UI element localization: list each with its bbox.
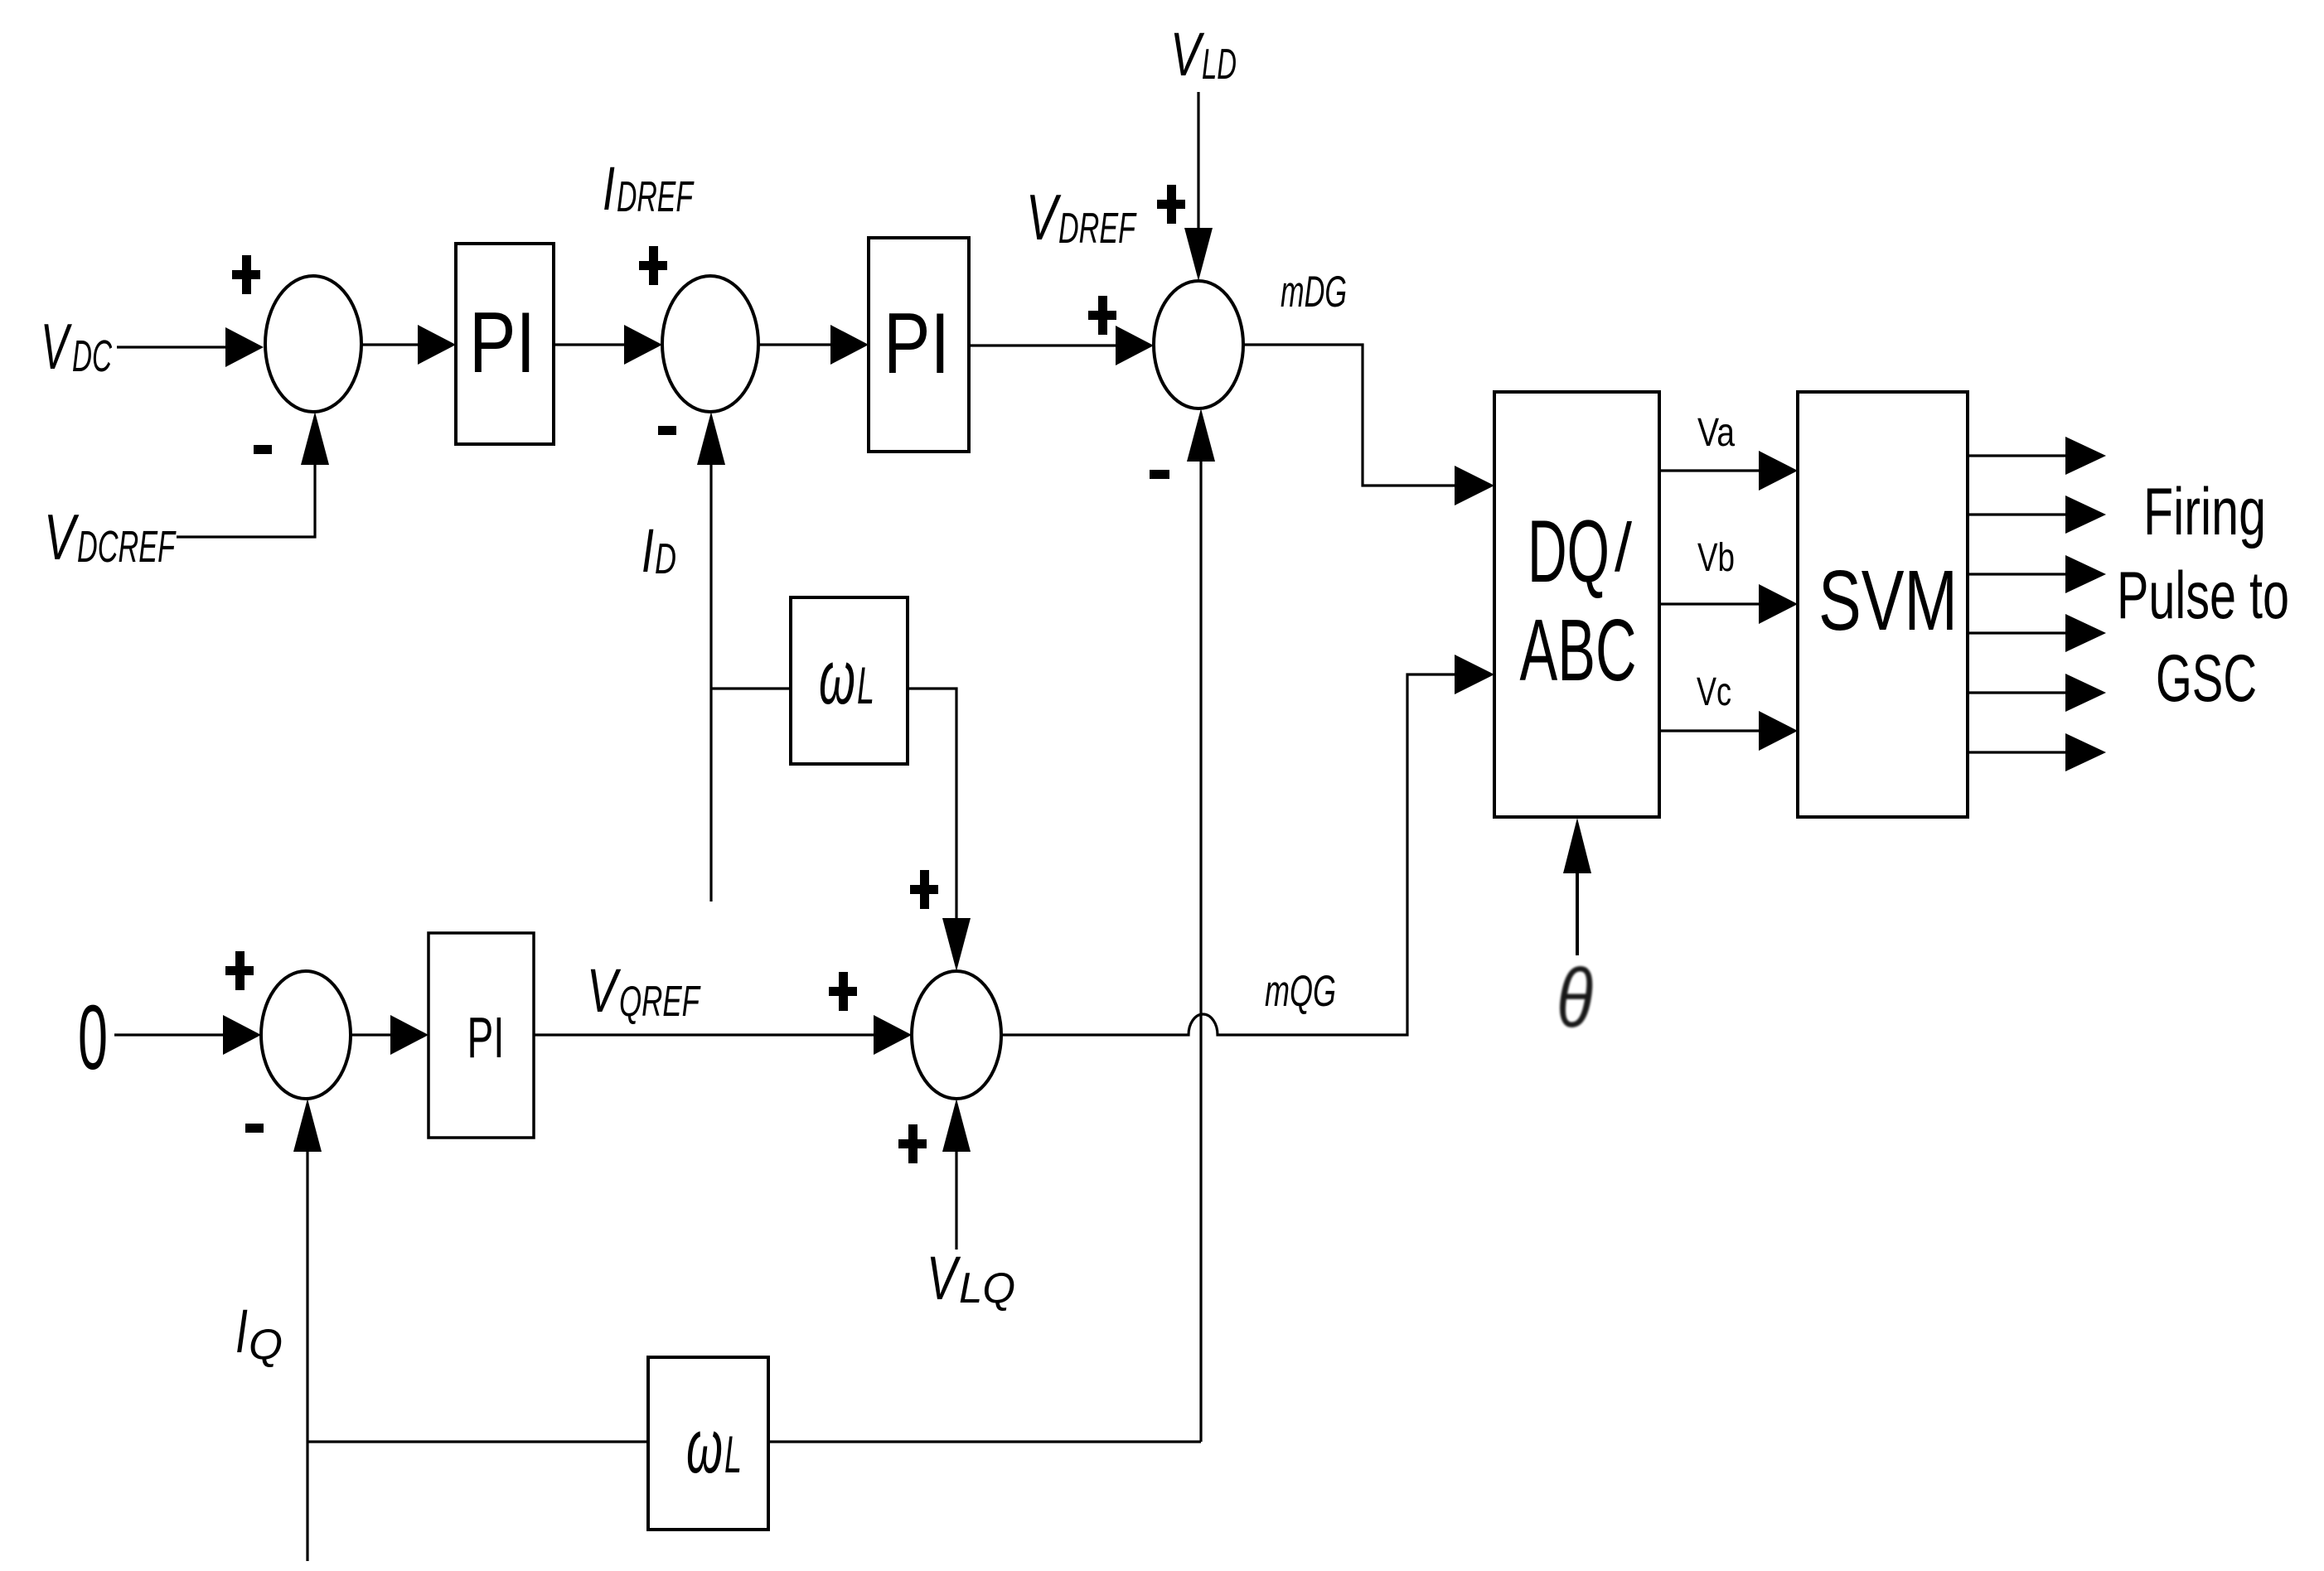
SVM output arrow 3: [1968, 555, 2106, 593]
arrowhead theta into DQ/ABC bottom: [1563, 818, 1591, 873]
wire S1 to PI1: [361, 343, 419, 346]
node ID junction to wL1: [711, 687, 791, 689]
wire Vb to SVM: [1659, 602, 1759, 605]
svg-text:D: D: [655, 535, 676, 583]
plus sign at S4 input: [225, 951, 254, 990]
block SVM: [1798, 392, 1968, 817]
SVM output arrow 5: [1968, 674, 2106, 712]
wire mQG from S5 with hop to DQ/ABC lower input: [1001, 674, 1455, 1035]
svg-text:Vb: Vb: [1697, 536, 1735, 580]
arrowhead into PI3: [390, 1015, 428, 1055]
arrowhead into PI1: [418, 325, 456, 365]
plus sign at S3 left input: [1088, 296, 1116, 335]
block wL2: [648, 1357, 768, 1530]
arrowhead up into S5 bottom: [942, 1099, 971, 1152]
arrowhead up into S1 bottom: [301, 412, 329, 465]
svg-text:DREF: DREF: [1058, 205, 1137, 253]
arrowhead into S2: [624, 325, 662, 365]
minus sign at S4 lower input: [245, 1124, 264, 1133]
block PI2: [869, 238, 969, 452]
svg-text:mDG: mDG: [1281, 268, 1347, 317]
plus sign at S5 left input: [829, 972, 857, 1011]
minus sign at S2 lower input: [658, 426, 676, 435]
plus sign at S5 bottom input: [898, 1124, 927, 1163]
svg-text:DQ: DQ: [1528, 501, 1610, 601]
label wL1: [819, 636, 874, 720]
arrowhead into S4: [223, 1015, 261, 1055]
arrowhead into PI2: [830, 325, 869, 365]
summing junction S3: [1154, 281, 1243, 408]
wire PI1 to summing junction S2: [554, 343, 624, 346]
arrowhead into DQ/ABC top input: [1455, 466, 1494, 505]
node VDREF label: [1026, 181, 1137, 254]
wire IQ up into S4 bottom: [306, 1152, 308, 1561]
svg-text:DCREF: DCREF: [77, 522, 177, 572]
arrowhead into S5: [874, 1015, 912, 1055]
wire theta up into DQ/ABC bottom: [1576, 873, 1579, 955]
wire PI2 to summing junction S3: [969, 344, 1116, 346]
summing junction S1: [265, 276, 361, 412]
arrowhead into S1: [225, 327, 264, 367]
svg-text:DC: DC: [72, 331, 113, 381]
block PI3: [428, 933, 534, 1138]
wire wL1 output down to S5 top: [908, 689, 956, 918]
SVM output arrow 2: [1968, 495, 2106, 534]
svg-text:I: I: [235, 1297, 248, 1366]
arrowhead down into S5 top: [942, 918, 971, 971]
wire IQ feedback junction to wL2: [307, 1440, 648, 1443]
svg-text:QREF: QREF: [619, 978, 701, 1026]
wire Va to SVM: [1659, 469, 1759, 471]
block DQ/ABC: [1494, 392, 1659, 817]
svg-text:GSC: GSC: [2156, 641, 2257, 716]
svg-text:/: /: [1615, 509, 1633, 586]
svg-text:0: 0: [78, 987, 108, 1089]
SVM output arrow 1: [1968, 437, 2106, 475]
svg-text:V: V: [44, 500, 80, 573]
node ID label: [642, 516, 676, 585]
summing junction S4: [261, 971, 351, 1099]
wire PI3 to summing junction S5: [534, 1033, 874, 1036]
svg-text:V: V: [587, 956, 622, 1025]
node VDCREF label: [44, 500, 177, 573]
svg-text:PI: PI: [467, 1005, 505, 1070]
node VDC label: [41, 310, 113, 383]
svg-text:LQ: LQ: [959, 1264, 1015, 1312]
svg-text:Firing: Firing: [2143, 475, 2266, 549]
label Firing Pulse to GSC: [2117, 475, 2289, 716]
svg-text:mQG: mQG: [1265, 967, 1336, 1016]
plus sign at S1 input: [232, 255, 260, 294]
node VLD label: [1170, 20, 1237, 89]
svg-text:I: I: [603, 154, 615, 223]
svg-text:PI: PI: [469, 295, 535, 391]
node IDREF label: [603, 154, 695, 223]
svg-text:Pulse to: Pulse to: [2117, 558, 2289, 633]
wire minus feedback up into S3 bottom: [1199, 462, 1202, 1442]
svg-text:SVM: SVM: [1818, 553, 1958, 648]
svg-text:Va: Va: [1697, 411, 1735, 455]
arrowhead Vb into SVM: [1759, 584, 1798, 624]
arrowhead down into S3 top: [1184, 228, 1213, 281]
node IQ label: [235, 1297, 283, 1369]
wire VDC to summing junction S1: [117, 346, 225, 348]
minus sign at S3 lower input: [1150, 470, 1169, 479]
summing junction S2: [662, 276, 758, 412]
wire VDCREF to S1 bottom: [177, 465, 315, 537]
summing junction S5: [912, 971, 1001, 1099]
svg-text:V: V: [1026, 181, 1062, 254]
plus sign at S2 input: [639, 246, 667, 285]
wire VLQ up into S5 bottom: [955, 1152, 957, 1250]
wire S2 to PI2: [758, 343, 830, 346]
svg-text:V: V: [1170, 20, 1205, 89]
node VQREF label: [587, 956, 701, 1026]
svg-text:LD: LD: [1202, 41, 1237, 89]
label wL2: [686, 1404, 742, 1489]
svg-text:Q: Q: [249, 1321, 283, 1369]
block PI1: [456, 244, 554, 444]
svg-text:Vc: Vc: [1697, 670, 1731, 714]
wire wL2 output to vertical feedback riser: [768, 1440, 1201, 1443]
arrowhead Va into SVM: [1759, 451, 1798, 491]
svg-text:L: L: [724, 1426, 742, 1484]
wire VLD down into S3 top: [1197, 92, 1199, 228]
arrowhead Vc into SVM: [1759, 711, 1798, 751]
wire Vc to SVM: [1659, 729, 1759, 732]
svg-text:θ: θ: [1557, 952, 1593, 1045]
block wL1: [791, 597, 908, 764]
wire ID up into S2 bottom: [709, 465, 712, 902]
plus sign at S3 top input: [1157, 185, 1185, 224]
node VLQ label: [927, 1244, 1015, 1312]
plus sign at S5 top input: [910, 870, 938, 909]
svg-text:ω: ω: [819, 636, 855, 720]
arrowhead into DQ/ABC lower input: [1455, 655, 1494, 694]
arrowhead up into S2 bottom: [697, 412, 725, 465]
svg-text:ω: ω: [686, 1404, 723, 1489]
svg-text:PI: PI: [884, 296, 950, 392]
svg-text:V: V: [41, 310, 73, 383]
svg-text:DREF: DREF: [617, 173, 695, 221]
minus sign at S1 lower input: [254, 445, 272, 454]
arrowhead into S3: [1116, 326, 1154, 365]
wire 0 to summing junction S4: [114, 1033, 223, 1036]
svg-text:L: L: [857, 657, 874, 715]
svg-text:I: I: [642, 516, 654, 585]
SVM output arrow 6: [1968, 733, 2106, 771]
wire S4 to PI3: [351, 1033, 390, 1036]
svg-text:ABC: ABC: [1520, 602, 1637, 699]
wire mDG from S3 to DQ/ABC top input: [1243, 345, 1455, 486]
arrowhead up into S3 bottom: [1187, 408, 1215, 462]
arrowhead up into S4 bottom: [293, 1099, 322, 1152]
svg-text:V: V: [927, 1244, 961, 1312]
SVM output arrow 4: [1968, 614, 2106, 652]
